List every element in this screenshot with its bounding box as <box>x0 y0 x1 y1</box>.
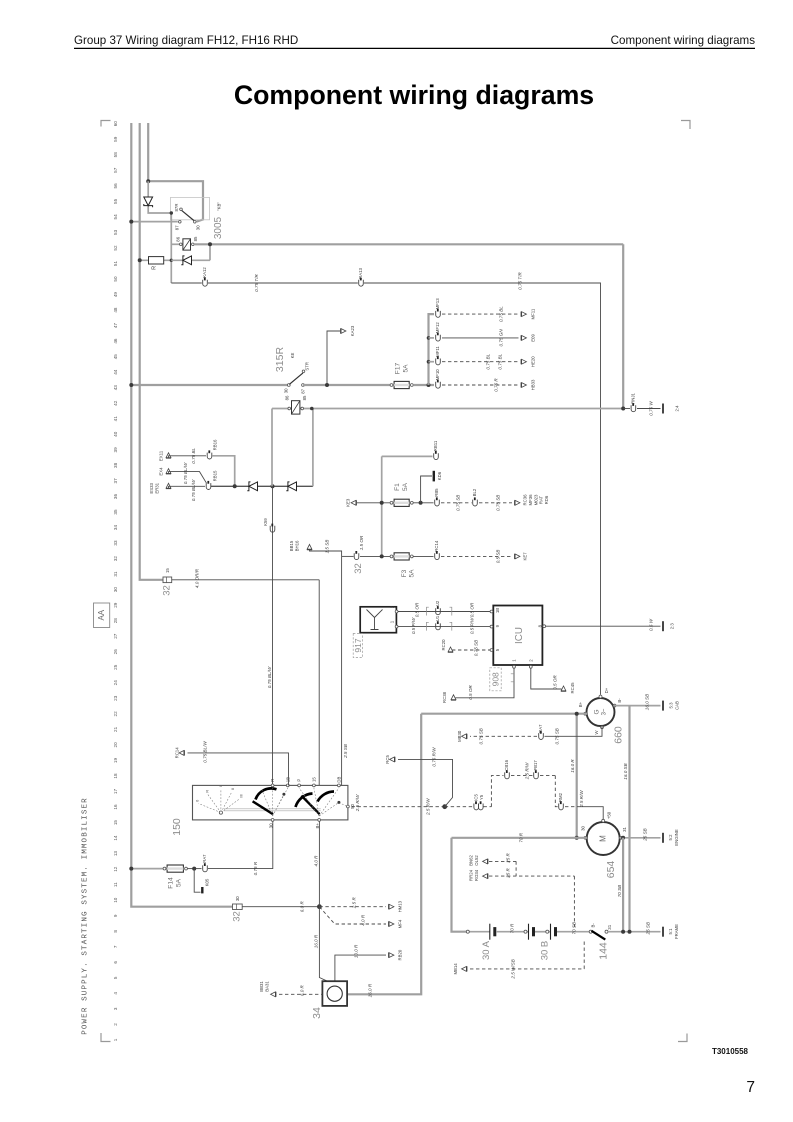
svg-text:6.0 R: 6.0 R <box>300 984 305 996</box>
alternator pin D+ <box>599 695 602 698</box>
svg-text:5:1: 5:1 <box>668 928 673 935</box>
connector K59 <box>270 526 275 532</box>
svg-text:KA12: KA12 <box>202 267 207 278</box>
wire to E09 arrow <box>442 337 519 339</box>
ignition switch 150 box <box>193 785 348 820</box>
frame corner bottom-left <box>101 1033 111 1042</box>
dashed 2.5 R to HM13 <box>319 906 386 908</box>
relay 3005 contact box <box>171 197 210 219</box>
svg-text:38: 38 <box>113 462 118 468</box>
svg-text:BN62: BN62 <box>469 855 474 866</box>
svg-text:0.5 OR: 0.5 OR <box>468 685 473 700</box>
wire bus A to F14 <box>131 868 164 870</box>
svg-text:42: 42 <box>113 400 118 406</box>
svg-text:30 A: 30 A <box>481 940 492 960</box>
wire starter 31 to ground 5:2 <box>620 837 661 839</box>
wire: battery bus B <box>140 123 163 580</box>
diode D2 (3005) <box>171 259 210 261</box>
dashed 25 R row1 <box>489 860 516 862</box>
svg-text:55: 55 <box>113 198 118 204</box>
svg-text:RB20: RB20 <box>398 949 403 960</box>
wire 2.5 R/W from key 50 <box>352 806 445 808</box>
wire 25 SB to ground 5:1 <box>608 931 661 933</box>
connector RB15 <box>206 483 211 489</box>
svg-text:17: 17 <box>113 789 118 795</box>
svg-text:0.75 T/R: 0.75 T/R <box>518 272 523 290</box>
connector CB16 <box>505 772 510 778</box>
svg-text:MB14: MB14 <box>453 963 458 975</box>
wire ICU pin8 0.5 W to ground <box>546 625 661 627</box>
connector RA13 <box>359 280 364 286</box>
svg-text:4.0 OR/R: 4.0 OR/R <box>195 568 200 588</box>
connector 32 pin 30 <box>233 904 243 910</box>
svg-text:32: 32 <box>113 556 118 562</box>
diode D3 <box>249 482 258 491</box>
fuse F14 5A <box>163 867 166 870</box>
svg-text:KE7: KE7 <box>523 552 528 561</box>
dashed 2.5 W/SB + MB14 <box>470 968 584 970</box>
svg-text:0.75 BL/W: 0.75 BL/W <box>191 479 196 501</box>
wire ICU pin2 to RC45 <box>531 668 562 689</box>
wire 4.0 OR/R <box>172 579 320 581</box>
ground 2:3 <box>662 621 664 631</box>
svg-text:46: 46 <box>113 338 118 344</box>
svg-text:1B: 1B <box>285 777 290 782</box>
frame corner bottom-right <box>678 1034 687 1042</box>
svg-text:KD6: KD6 <box>437 471 442 480</box>
svg-text:30: 30 <box>269 823 274 828</box>
alternator pin B+ <box>584 712 587 715</box>
svg-text:87R: 87R <box>174 204 179 212</box>
starter pin 31 <box>620 836 623 839</box>
svg-text:Y5: Y5 <box>479 794 484 800</box>
svg-text:0.75 T/R: 0.75 T/R <box>254 274 259 292</box>
wire to HE20 arrow <box>442 361 519 363</box>
svg-text:2.5 R/W: 2.5 R/W <box>426 798 431 816</box>
ICU pin 5 <box>490 649 493 652</box>
fuse F17 5A <box>390 384 393 387</box>
relay 3005 "KB" contact loop wire <box>148 181 203 221</box>
terminal KD6 <box>421 476 432 503</box>
svg-text:12: 12 <box>113 866 118 872</box>
svg-text:0.5 P/W: 0.5 P/W <box>470 617 475 634</box>
svg-text:27: 27 <box>113 633 118 639</box>
wire RC14 to switch 1B <box>188 753 289 786</box>
svg-text:RC36: RC36 <box>523 494 528 506</box>
pin P <box>298 784 301 787</box>
svg-text:MF11: MF11 <box>435 346 440 357</box>
svg-text:0.75 SB: 0.75 SB <box>474 640 479 656</box>
frame corner top-left <box>101 121 111 127</box>
connector MF12 <box>429 337 435 339</box>
svg-text:87: 87 <box>174 225 179 230</box>
svg-text:3: 3 <box>113 1007 118 1010</box>
diode row wire <box>211 485 313 487</box>
svg-text:2: 2 <box>113 1023 118 1026</box>
connector RM2 <box>559 804 564 810</box>
svg-text:25: 25 <box>113 664 118 670</box>
svg-text:59: 59 <box>113 136 118 142</box>
svg-text:25 SB: 25 SB <box>643 828 648 842</box>
node after F14 <box>187 868 201 870</box>
svg-text:II: II <box>230 788 235 790</box>
svg-text:32: 32 <box>162 585 173 596</box>
svg-text:D+: D+ <box>604 687 609 693</box>
svg-text:2:3: 2:3 <box>670 623 675 630</box>
svg-text:10: 10 <box>113 897 118 903</box>
svg-text:5A: 5A <box>176 878 183 887</box>
svg-text:BL2: BL2 <box>472 488 477 496</box>
spur to KA23 <box>327 331 340 385</box>
svg-text:31: 31 <box>113 571 118 577</box>
alternator pin B- <box>613 704 616 707</box>
diode D4 <box>288 482 297 491</box>
svg-text:34: 34 <box>311 1007 323 1019</box>
svg-text:CB16: CB16 <box>504 759 509 770</box>
wire 0.75 BL/W to switch R <box>272 486 274 785</box>
svg-text:RC14: RC14 <box>175 747 180 759</box>
connector BL2 <box>473 500 478 506</box>
svg-text:0.75 BL/W: 0.75 BL/W <box>183 462 188 484</box>
svg-text:16.0 SB: 16.0 SB <box>623 763 628 779</box>
wire ICU pin1 to RC38 <box>456 668 515 698</box>
ICU pin 1B <box>490 610 493 613</box>
mechanical coupling <box>224 809 321 811</box>
pin DB <box>338 784 341 787</box>
svg-text:34: 34 <box>113 525 118 531</box>
svg-text:0.5 OR: 0.5 OR <box>470 602 475 617</box>
svg-text:21: 21 <box>113 726 118 732</box>
wire: 315R out <box>303 384 392 386</box>
svg-text:26: 26 <box>113 649 118 655</box>
pin 15 <box>313 784 316 787</box>
connector FB17 <box>534 772 539 778</box>
svg-text:16.0 R: 16.0 R <box>368 983 373 997</box>
svg-text:16: 16 <box>113 804 118 810</box>
alternator pin W <box>601 726 604 729</box>
svg-text:2.5 R: 2.5 R <box>352 897 357 910</box>
dashed drop to RM2 <box>540 775 555 777</box>
connector MF13 <box>436 311 441 317</box>
wire 4.0 R up to B+ <box>318 820 320 907</box>
svg-text:50: 50 <box>350 804 355 809</box>
contact 1 (R/30) <box>256 788 277 799</box>
wire: RA13 to D+ rail <box>364 283 601 695</box>
node R distribution <box>317 904 322 909</box>
arrow EX11 <box>166 453 171 458</box>
wire B- drop 16.0 SB <box>628 706 630 932</box>
wire 0.75 SB dashed <box>441 502 472 504</box>
wire 10.0 R to RB20 <box>335 955 386 982</box>
node 50 branch <box>442 804 447 809</box>
svg-text:25 R: 25 R <box>506 867 511 878</box>
svg-text:RO34: RO34 <box>474 869 479 881</box>
wire to HB33 arrow <box>442 384 519 386</box>
pin 87 <box>179 221 182 224</box>
svg-text:19: 19 <box>113 758 118 764</box>
svg-text:4.0 R: 4.0 R <box>361 914 366 926</box>
wire 0.75 R/W to RC5 <box>398 759 453 806</box>
sheet reference AA <box>94 603 110 628</box>
alternator 660 <box>587 698 615 726</box>
svg-text:150: 150 <box>171 818 183 836</box>
wire RB16 down <box>212 456 235 487</box>
wire 70 SB <box>622 838 624 932</box>
svg-text:STR: STR <box>305 362 310 371</box>
svg-text:52: 52 <box>113 245 118 251</box>
wire: relay 3005 output 85 to right rail <box>194 243 623 245</box>
pin 30 <box>271 819 274 822</box>
wire: coil feed vertical <box>170 213 172 283</box>
svg-text:16.0 R: 16.0 R <box>570 759 575 773</box>
svg-text:RC5: RC5 <box>385 754 390 763</box>
wire: battery bus A (left vertical feed) <box>131 123 232 907</box>
svg-text:39: 39 <box>113 447 118 453</box>
arrows BN62 OL52 <box>483 859 488 864</box>
wire: right rail drop <box>622 244 624 408</box>
svg-text:R: R <box>270 779 275 782</box>
svg-text:70 R: 70 R <box>519 832 524 842</box>
pin 87R <box>180 208 183 211</box>
connector MF10 <box>436 382 441 388</box>
svg-text:RM2: RM2 <box>558 792 563 802</box>
svg-text:0.75 BL: 0.75 BL <box>191 447 196 463</box>
svg-text:35: 35 <box>113 509 118 515</box>
wire: 315R secondary rail <box>272 408 623 410</box>
svg-text:RAT: RAT <box>539 495 544 504</box>
svg-text:40: 40 <box>113 431 118 437</box>
svg-text:FB17: FB17 <box>533 760 538 771</box>
switch 34 <box>322 981 347 1006</box>
svg-text:KA23: KA23 <box>350 325 355 336</box>
svg-text:16.0 R: 16.0 R <box>313 934 318 948</box>
node: bus C to 3005 <box>146 179 150 183</box>
header rule <box>74 47 755 49</box>
svg-text:0.5 W: 0.5 W <box>649 618 654 631</box>
node bus A 43-row <box>129 383 133 387</box>
wire 1.5 SB <box>310 550 342 557</box>
terminal K05 <box>194 869 200 893</box>
svg-text:P: P <box>297 779 302 782</box>
svg-text:0.75 GN: 0.75 GN <box>499 329 504 347</box>
917 pin 1 <box>395 625 398 628</box>
svg-text:15: 15 <box>113 820 118 826</box>
antenna unit 917 <box>360 607 396 633</box>
svg-text:908: 908 <box>491 672 501 686</box>
svg-text:44: 44 <box>113 369 118 375</box>
svg-text:57: 57 <box>113 167 118 173</box>
svg-text:HB33: HB33 <box>531 379 536 390</box>
svg-text:15: 15 <box>165 568 170 573</box>
connector RC14 <box>435 553 440 559</box>
svg-text:70 SB: 70 SB <box>572 922 577 935</box>
svg-text:45: 45 <box>113 354 118 360</box>
svg-text:5: 5 <box>113 976 118 979</box>
svg-text:917: 917 <box>353 638 363 652</box>
wire: MF riser <box>429 314 435 385</box>
svg-text:RNJ1: RNJ1 <box>630 393 635 404</box>
wire down to switch pin 15 <box>318 580 320 786</box>
svg-text:6.0 R: 6.0 R <box>300 901 305 913</box>
svg-text:11: 11 <box>113 882 118 887</box>
svg-text:0.75 R: 0.75 R <box>494 378 499 392</box>
svg-text:2.5 R/W: 2.5 R/W <box>579 790 584 808</box>
svg-text:70 R: 70 R <box>510 923 515 933</box>
svg-text:10.0 R: 10.0 R <box>354 944 359 958</box>
node on bus A <box>129 220 133 224</box>
ICU pin 1 <box>513 665 516 668</box>
connector KA12 <box>203 280 208 286</box>
ICU pin 8 <box>543 625 546 628</box>
relay 315R contact <box>287 384 290 387</box>
relay 3005 coil <box>183 239 191 250</box>
wire W 0.75 SB <box>545 727 603 737</box>
svg-text:ICU: ICU <box>514 627 525 644</box>
relay 3005 contact blade 87R-30 <box>182 210 195 220</box>
svg-text:6: 6 <box>113 961 118 964</box>
svg-text:85: 85 <box>302 395 307 400</box>
svg-text:MF10: MF10 <box>435 369 440 381</box>
connector pair brackets <box>427 607 452 615</box>
svg-text:29: 29 <box>113 602 118 608</box>
svg-text:G: G <box>594 709 601 714</box>
svg-text:ES33: ES33 <box>149 482 154 493</box>
svg-text:54: 54 <box>113 214 118 220</box>
ICU pin 2 <box>529 665 532 668</box>
node RNJ1 <box>621 407 625 411</box>
svg-text:37: 37 <box>113 478 118 484</box>
svg-text:25 SB: 25 SB <box>646 922 651 936</box>
svg-text:56: 56 <box>113 183 118 189</box>
starter pin 30 <box>584 836 587 839</box>
svg-text:IC5: IC5 <box>474 794 479 801</box>
svg-text:1.5 OR: 1.5 OR <box>359 535 364 550</box>
svg-text:30: 30 <box>284 388 289 393</box>
contact 2 (15/50) <box>296 794 313 808</box>
wire to starter +50 <box>565 806 577 808</box>
svg-text:F17: F17 <box>395 362 402 374</box>
svg-text:B+: B+ <box>578 701 583 707</box>
wire 70 SB to switch 144 <box>557 931 589 933</box>
wire 70 R between batteries <box>496 931 529 933</box>
svg-text:B+: B+ <box>315 823 320 829</box>
svg-text:RB11: RB11 <box>433 440 438 451</box>
svg-text:RB16: RB16 <box>212 439 217 450</box>
svg-text:HM13: HM13 <box>398 900 403 912</box>
starter pin +50 <box>602 819 605 822</box>
svg-text:5A: 5A <box>402 482 409 491</box>
svg-text:FRAME: FRAME <box>674 924 679 939</box>
svg-text:MF11: MF11 <box>531 308 536 319</box>
wire after F17 <box>413 384 434 386</box>
svg-text:EX11: EX11 <box>159 450 164 461</box>
op-unit ICU box <box>493 606 542 666</box>
svg-text:K05: K05 <box>204 878 209 886</box>
svg-text:RC14: RC14 <box>434 540 439 552</box>
svg-text:51: 51 <box>113 261 118 267</box>
wire: KA12 signal <box>171 282 202 284</box>
ICU pin 9 <box>490 625 493 628</box>
svg-text:0.5 SB: 0.5 SB <box>496 550 501 564</box>
svg-text:41: 41 <box>113 416 118 422</box>
svg-text:DB: DB <box>336 776 341 782</box>
pin R <box>271 784 274 787</box>
node 85 out <box>208 242 212 246</box>
svg-text:18: 18 <box>113 773 118 779</box>
svg-text:0.75 BL: 0.75 BL <box>498 353 503 369</box>
svg-text:0.75 SB: 0.75 SB <box>479 728 484 744</box>
dashed 25 R row2 <box>489 875 574 877</box>
svg-text:"KB": "KB" <box>217 202 222 211</box>
svg-text:RC45: RC45 <box>570 682 575 694</box>
dashed riser to CB16 <box>484 806 492 808</box>
svg-text:2.5 R/W: 2.5 R/W <box>525 762 530 780</box>
svg-text:30: 30 <box>581 826 586 831</box>
svg-text:POWER SUPPLY. STARTING SYSTEM.: POWER SUPPLY. STARTING SYSTEM. IMMOBILIS… <box>82 797 90 1035</box>
svg-text:30 B: 30 B <box>540 941 551 961</box>
svg-text:U1: U1 <box>435 615 440 621</box>
wire RC20 to pin 5 <box>452 649 490 651</box>
ground 2:4 <box>662 404 664 414</box>
svg-text:0.75 R: 0.75 R <box>253 861 258 875</box>
svg-text:58: 58 <box>113 152 118 158</box>
svg-text:BH16: BH16 <box>295 540 300 551</box>
node diode row <box>271 484 275 488</box>
svg-text:MF36: MF36 <box>528 494 533 506</box>
wire: fuse feed riser <box>381 456 383 556</box>
svg-text:15: 15 <box>311 777 316 782</box>
fuse F1 5A <box>390 501 393 504</box>
svg-text:U2: U2 <box>435 600 440 606</box>
wire to MF11 arrow <box>442 313 519 315</box>
fuse F3 5A <box>390 555 393 558</box>
connector U1 <box>436 623 441 629</box>
frame corner top-right <box>681 121 690 130</box>
svg-text:85: 85 <box>193 236 198 241</box>
wire after F1 <box>413 502 433 504</box>
svg-text:CAB: CAB <box>674 701 679 710</box>
svg-text:2.5 SB: 2.5 SB <box>343 744 348 759</box>
svg-text:3~: 3~ <box>602 708 608 715</box>
svg-text:F14: F14 <box>168 877 175 889</box>
pin 85 <box>192 243 195 246</box>
svg-text:24: 24 <box>113 680 118 686</box>
svg-text:4.0 R: 4.0 R <box>313 855 318 867</box>
wire B+ 16.0R <box>421 713 587 715</box>
connector RNJ1 <box>623 408 630 410</box>
svg-text:53: 53 <box>113 229 118 235</box>
svg-text:0.75 BL/W: 0.75 BL/W <box>203 741 208 763</box>
svg-text:7: 7 <box>113 945 118 948</box>
pin B+ <box>318 819 321 822</box>
svg-text:ER31: ER31 <box>155 482 160 493</box>
wire 0.75 R to switch 30 <box>208 820 273 869</box>
svg-text:0.5 OR: 0.5 OR <box>415 602 420 617</box>
svg-text:0.75 SB: 0.75 SB <box>496 495 501 511</box>
svg-text:30: 30 <box>235 896 240 901</box>
connector RA7 <box>203 865 208 871</box>
pin 86 <box>180 243 183 246</box>
svg-text:0.75 R/W: 0.75 R/W <box>432 747 437 767</box>
svg-text:BB15: BB15 <box>289 540 294 551</box>
svg-text:13: 13 <box>113 851 118 857</box>
svg-text:0.5 P/W: 0.5 P/W <box>411 617 416 634</box>
wire: bus A to 3005 pin 87 <box>131 221 178 223</box>
svg-text:B-: B- <box>590 923 595 928</box>
pin 50 <box>347 805 350 808</box>
wire B- 16.0 SB to ground 5:3 <box>614 705 661 707</box>
arrow RC36/MF36/M023/RAT/RD6 <box>515 500 520 505</box>
